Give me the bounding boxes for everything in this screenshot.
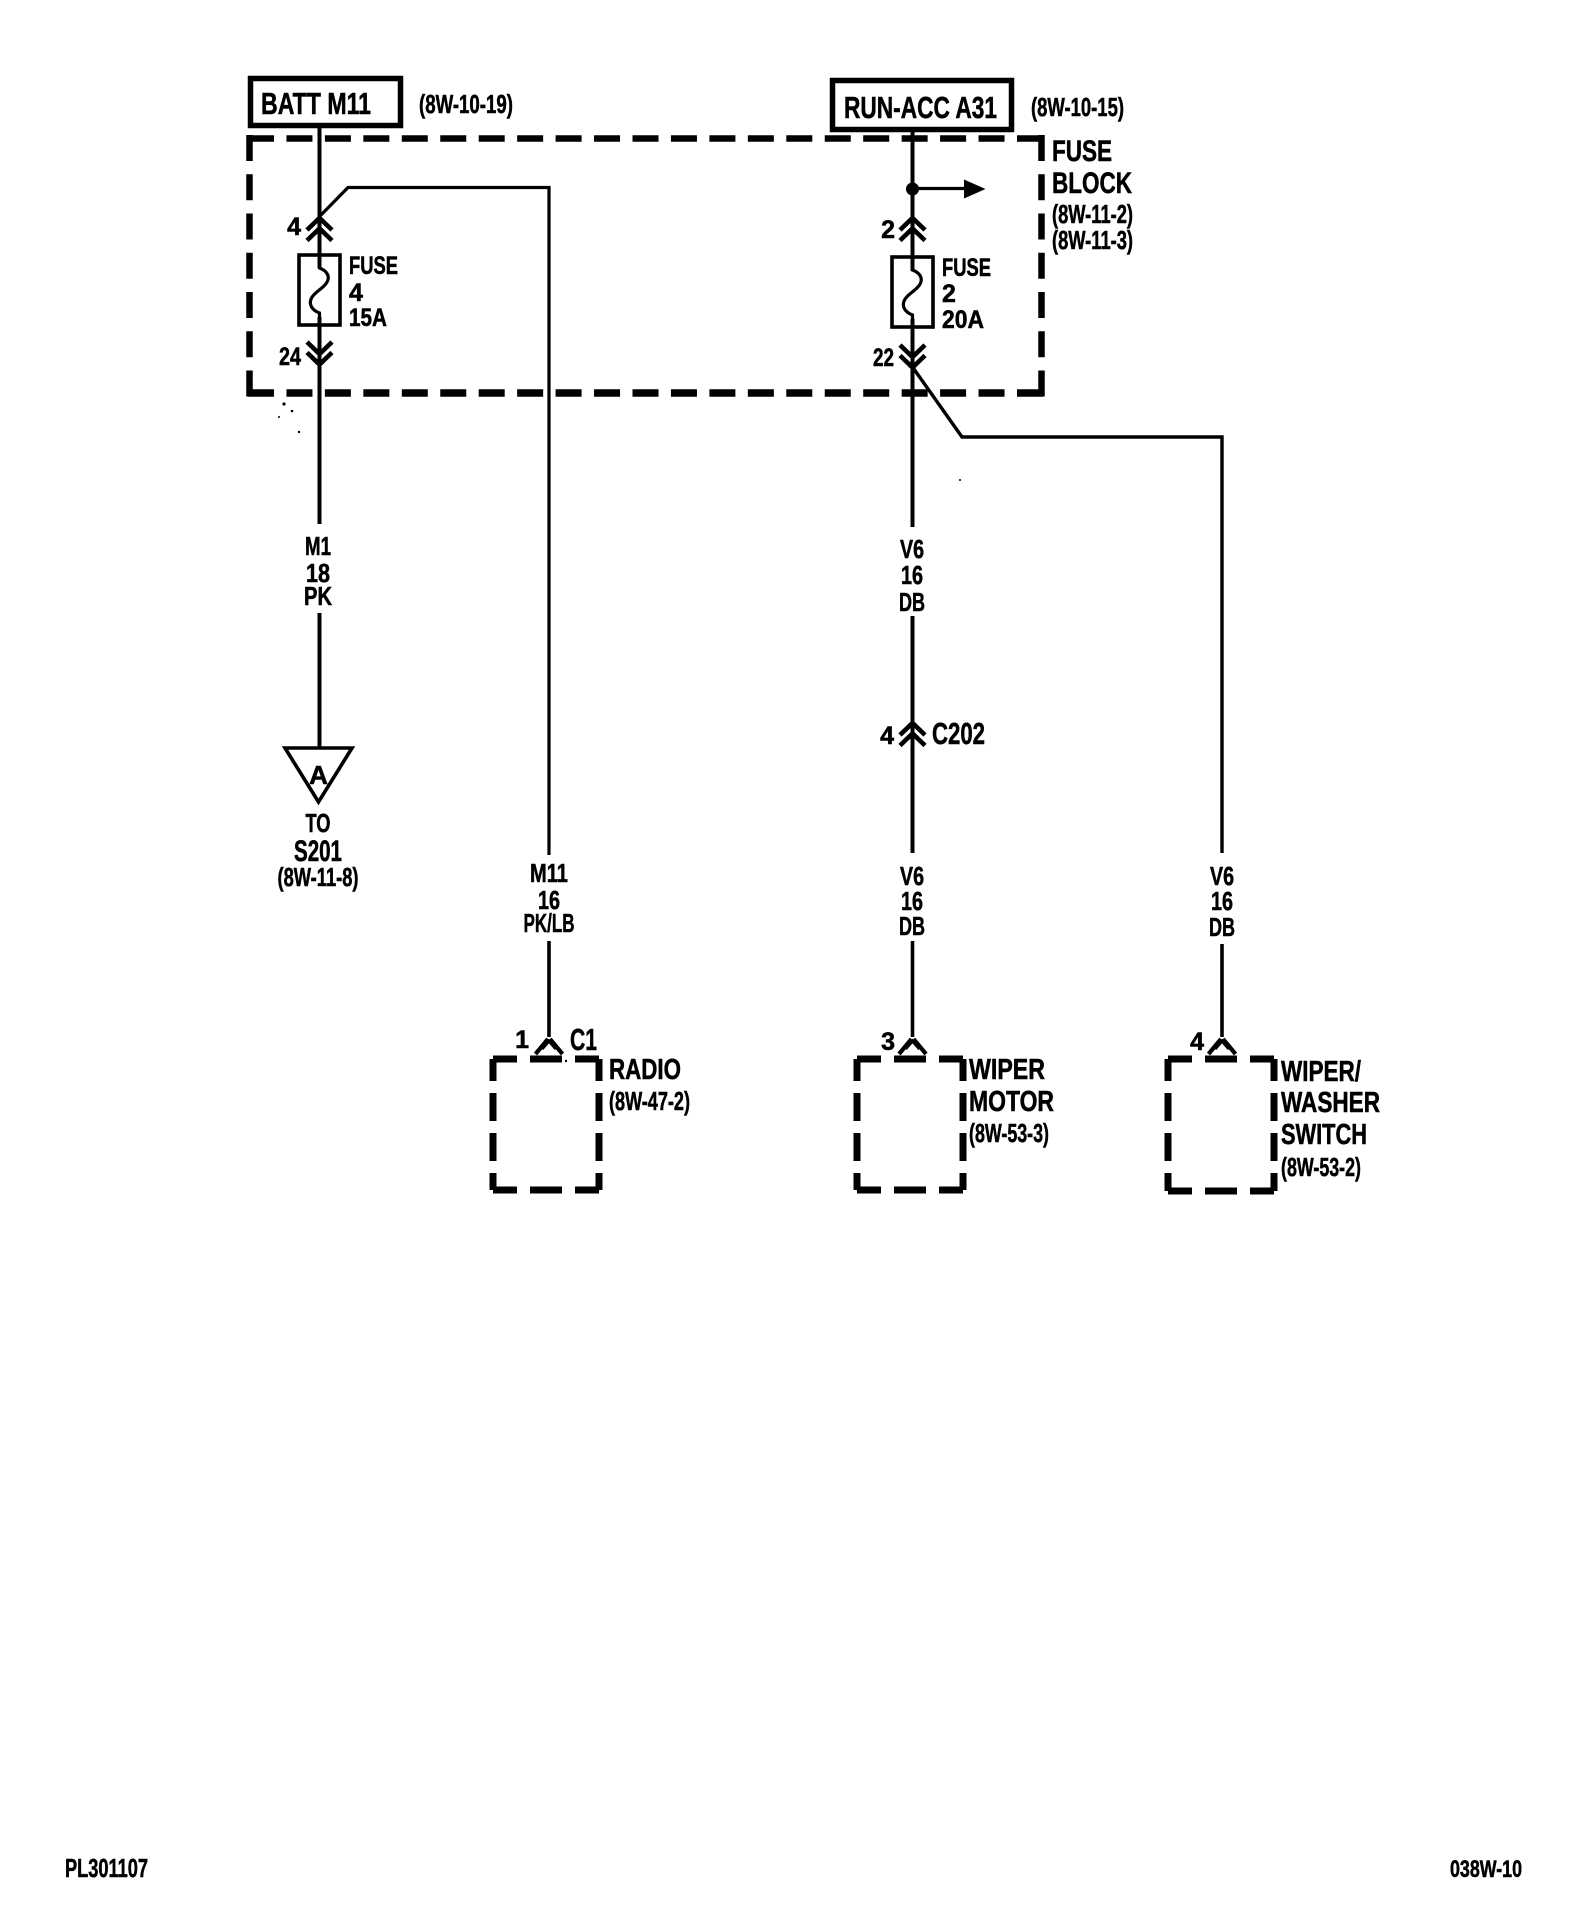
- svg-text:(8W-53-2): (8W-53-2): [1281, 1152, 1361, 1182]
- svg-text:2: 2: [942, 280, 956, 308]
- svg-text:FUSE: FUSE: [349, 252, 398, 280]
- svg-text:M1: M1: [305, 531, 331, 561]
- svg-text:FUSE: FUSE: [942, 254, 991, 282]
- svg-text:WASHER: WASHER: [1281, 1087, 1380, 1119]
- svg-text:4: 4: [287, 213, 301, 241]
- svg-text:BATT M11: BATT M11: [261, 86, 371, 121]
- svg-text:(8W-53-3): (8W-53-3): [969, 1118, 1049, 1148]
- svg-text:WIPER/: WIPER/: [1281, 1056, 1361, 1088]
- svg-text:1: 1: [515, 1026, 529, 1054]
- svg-text:3: 3: [881, 1028, 895, 1056]
- svg-text:C1: C1: [570, 1022, 597, 1057]
- svg-text:4: 4: [1190, 1028, 1204, 1056]
- svg-text:(8W-11-3): (8W-11-3): [1052, 225, 1133, 255]
- svg-text:(8W-10-19): (8W-10-19): [419, 89, 513, 119]
- svg-text:WIPER: WIPER: [969, 1054, 1045, 1086]
- svg-text:PL301107: PL301107: [65, 1853, 148, 1883]
- svg-text:RUN-ACC A31: RUN-ACC A31: [844, 90, 997, 125]
- svg-text:FUSE: FUSE: [1052, 135, 1112, 168]
- svg-text:A: A: [309, 760, 328, 790]
- svg-text:22: 22: [873, 344, 894, 372]
- svg-text:20A: 20A: [942, 306, 984, 334]
- svg-text:(8W-47-2): (8W-47-2): [609, 1086, 690, 1116]
- svg-text:DB: DB: [1209, 912, 1235, 942]
- svg-text:15A: 15A: [349, 304, 387, 332]
- svg-text:TO: TO: [306, 808, 331, 838]
- svg-text:MOTOR: MOTOR: [969, 1086, 1054, 1118]
- svg-text:DB: DB: [899, 587, 925, 617]
- svg-text:BLOCK: BLOCK: [1052, 167, 1132, 200]
- svg-text:038W-10: 038W-10: [1450, 1856, 1522, 1883]
- svg-text:DB: DB: [899, 911, 925, 941]
- svg-text:2: 2: [881, 216, 895, 244]
- svg-text:24: 24: [279, 343, 301, 371]
- svg-text:M11: M11: [530, 858, 568, 888]
- svg-text:(8W-11-8): (8W-11-8): [278, 862, 359, 892]
- svg-text:4: 4: [349, 279, 363, 307]
- svg-text:4: 4: [880, 722, 894, 750]
- svg-text:RADIO: RADIO: [609, 1054, 681, 1086]
- svg-text:PK/LB: PK/LB: [524, 908, 575, 938]
- svg-text:(8W-10-15): (8W-10-15): [1031, 92, 1124, 122]
- svg-text:PK: PK: [304, 581, 332, 611]
- svg-text:C202: C202: [932, 716, 985, 751]
- svg-text:16: 16: [901, 560, 923, 590]
- svg-text:SWITCH: SWITCH: [1281, 1119, 1367, 1151]
